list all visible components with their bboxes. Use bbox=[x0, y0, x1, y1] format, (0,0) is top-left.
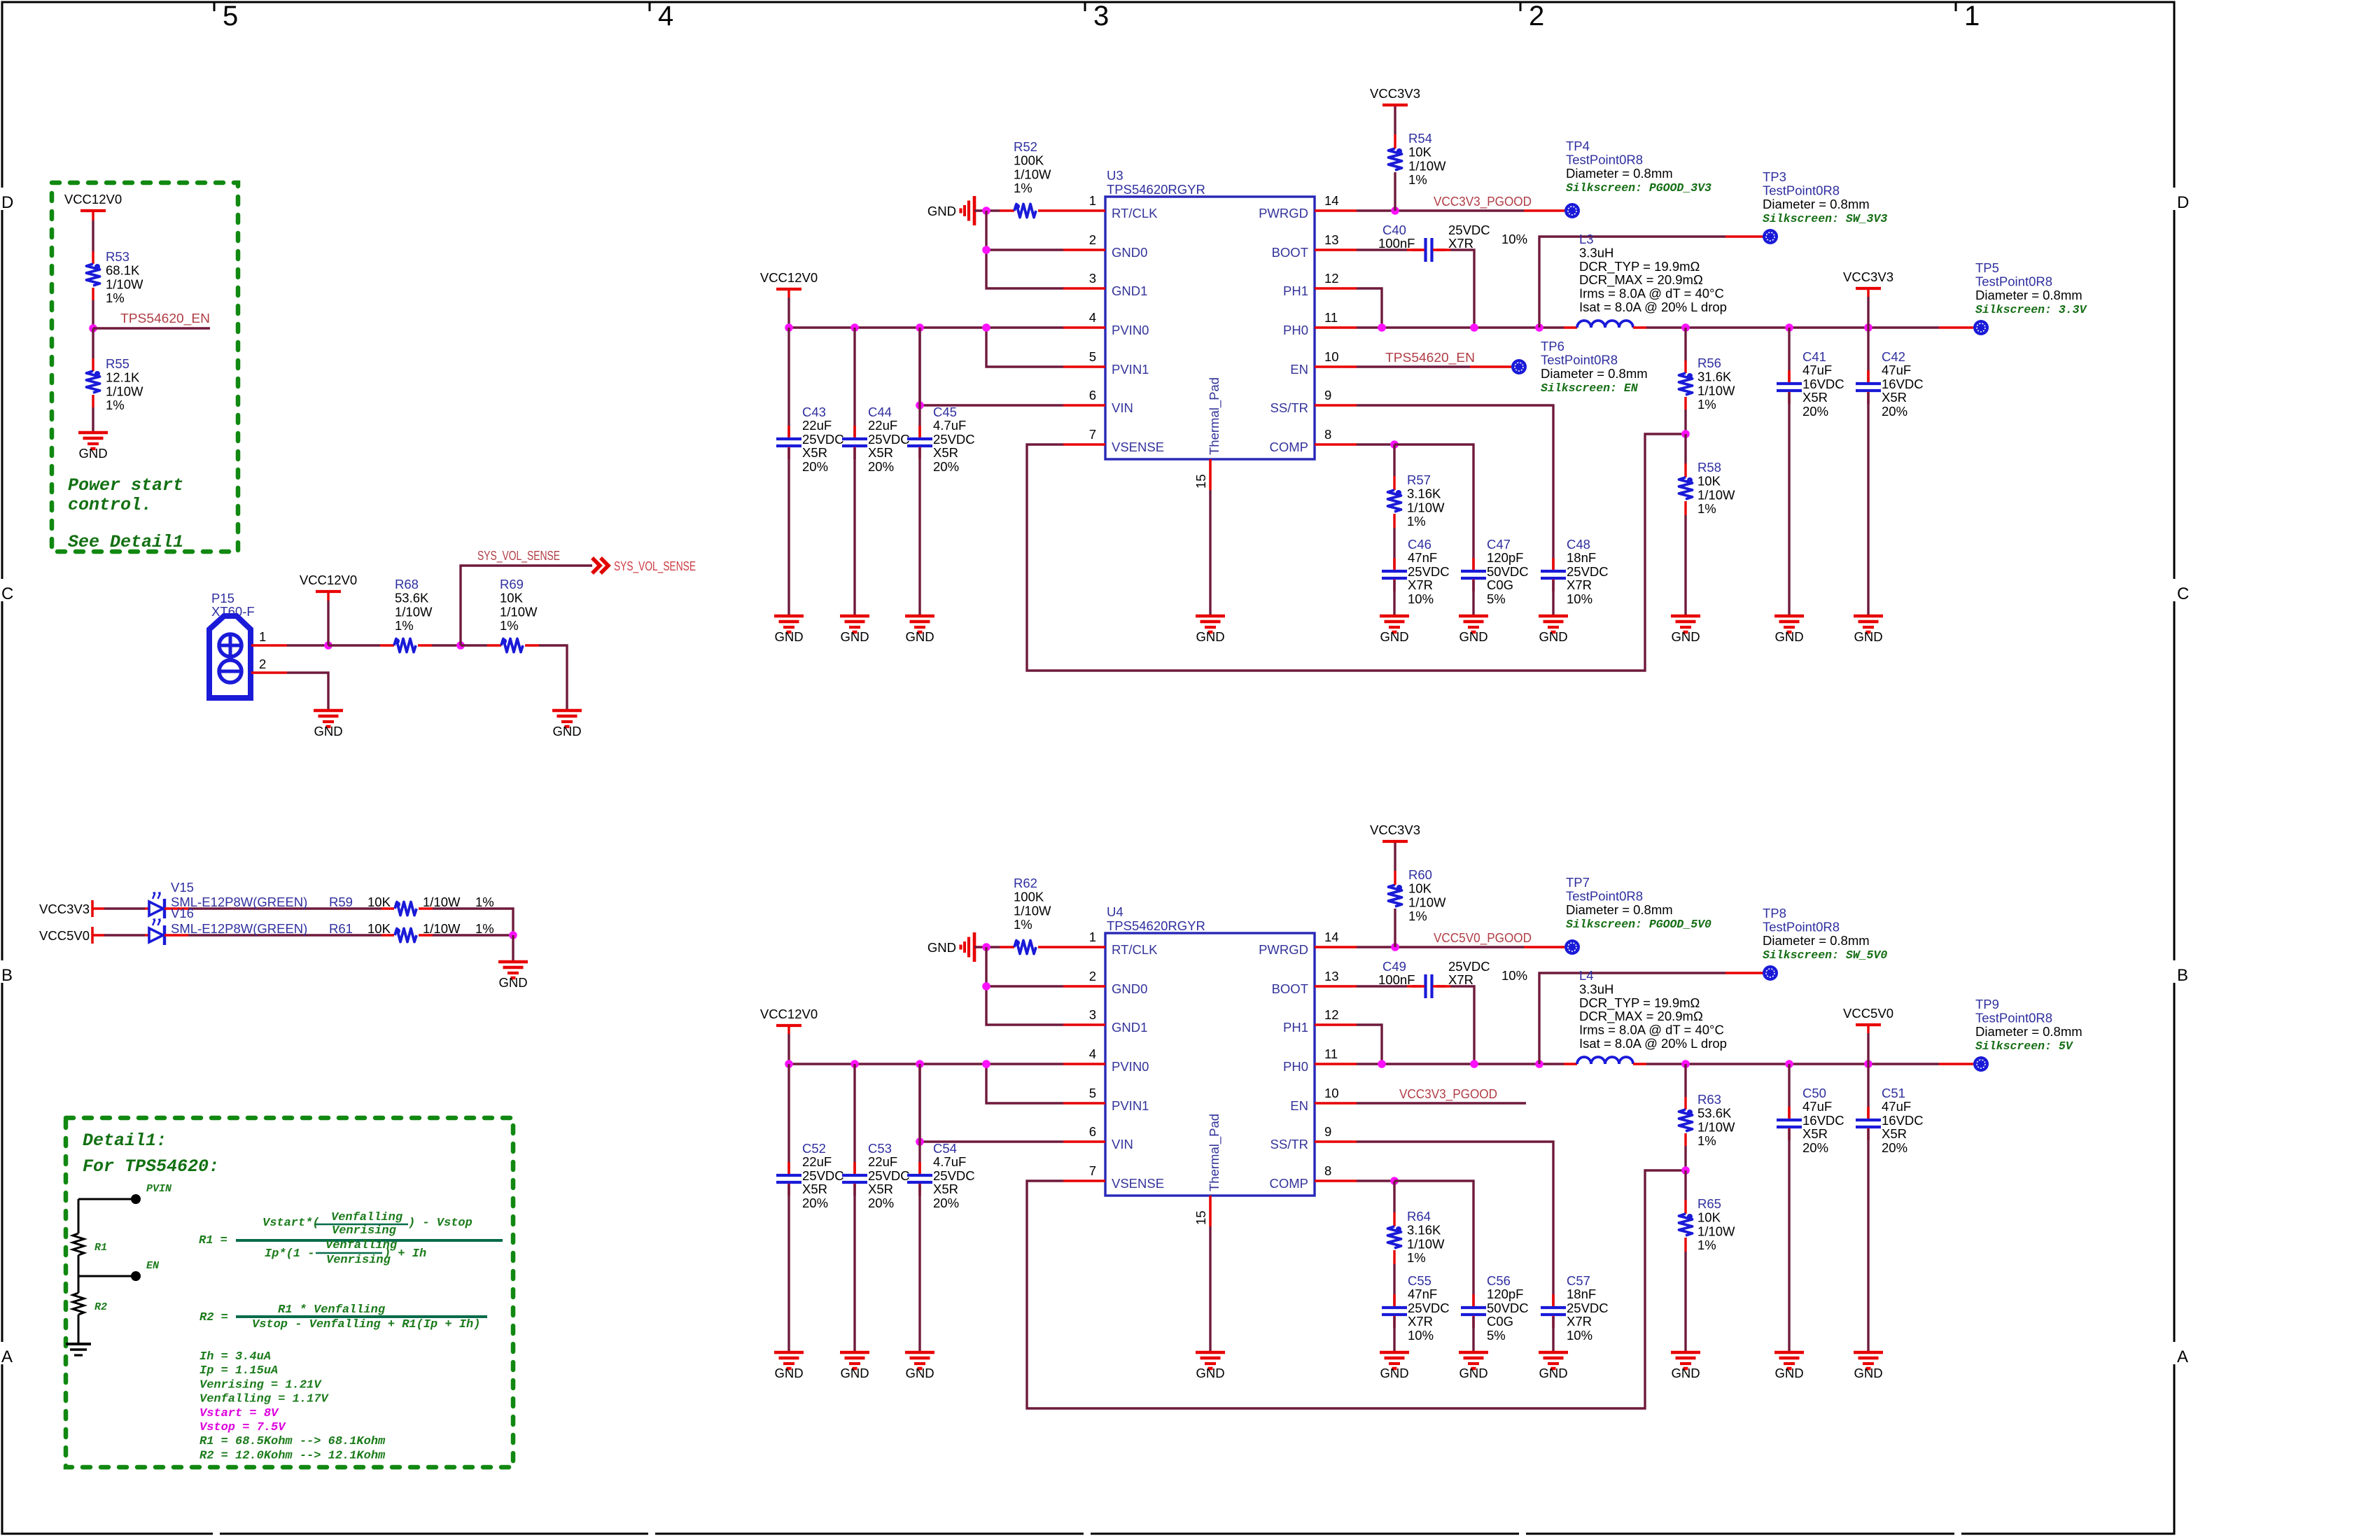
svg-text:TPS54620_EN: TPS54620_EN bbox=[120, 311, 210, 326]
svg-text:1/10W: 1/10W bbox=[1408, 895, 1446, 909]
svg-text:C43: C43 bbox=[802, 405, 826, 419]
svg-text:GND: GND bbox=[314, 724, 342, 738]
svg-text:GND: GND bbox=[1539, 1366, 1567, 1380]
svg-text:100nF: 100nF bbox=[1378, 236, 1415, 251]
svg-text:Diameter = 0.8mm: Diameter = 0.8mm bbox=[1541, 366, 1648, 381]
svg-text:Thermal_Pad: Thermal_Pad bbox=[1207, 377, 1222, 455]
svg-text:TestPoint0R8: TestPoint0R8 bbox=[1975, 274, 2052, 288]
svg-text:20%: 20% bbox=[802, 1196, 828, 1210]
svg-text:R69: R69 bbox=[500, 577, 524, 591]
svg-text:C: C bbox=[1, 584, 13, 603]
svg-text:PVIN: PVIN bbox=[146, 1183, 172, 1195]
svg-text:R63: R63 bbox=[1697, 1092, 1721, 1107]
svg-text:Ip*(1 -: Ip*(1 - bbox=[265, 1247, 314, 1261]
svg-text:16VDC: 16VDC bbox=[1882, 1113, 1924, 1128]
svg-text:1%: 1% bbox=[1697, 397, 1716, 412]
svg-text:12: 12 bbox=[1324, 271, 1339, 286]
svg-text:VCC3V3_PGOOD: VCC3V3_PGOOD bbox=[1399, 1086, 1497, 1102]
svg-text:5: 5 bbox=[223, 1, 238, 31]
svg-text:GND0: GND0 bbox=[1112, 245, 1147, 260]
svg-text:C42: C42 bbox=[1882, 349, 1905, 364]
svg-text:Silkscreen: SW_3V3: Silkscreen: SW_3V3 bbox=[1763, 212, 1887, 225]
svg-text:2: 2 bbox=[259, 657, 266, 671]
svg-text:Detail1:: Detail1: bbox=[83, 1130, 167, 1151]
svg-text:Power start: Power start bbox=[68, 475, 183, 496]
svg-text:VCC5V0: VCC5V0 bbox=[39, 928, 90, 943]
svg-text:P15: P15 bbox=[211, 591, 234, 605]
svg-text:1/10W: 1/10W bbox=[1014, 167, 1051, 181]
svg-text:1/10W: 1/10W bbox=[1014, 903, 1051, 918]
svg-text:Diameter = 0.8mm: Diameter = 0.8mm bbox=[1566, 166, 1673, 181]
svg-text:16VDC: 16VDC bbox=[1802, 1113, 1844, 1128]
svg-text:1/10W: 1/10W bbox=[1697, 487, 1735, 502]
svg-text:20%: 20% bbox=[933, 459, 959, 474]
svg-text:4.7uF: 4.7uF bbox=[933, 1154, 966, 1169]
svg-text:C44: C44 bbox=[868, 405, 892, 419]
svg-text:A: A bbox=[2177, 1347, 2188, 1366]
svg-text:47uF: 47uF bbox=[1802, 363, 1832, 377]
svg-text:SYS_VOL_SENSE: SYS_VOL_SENSE bbox=[614, 559, 696, 574]
svg-text:5%: 5% bbox=[1487, 591, 1506, 606]
svg-text:TP3: TP3 bbox=[1763, 169, 1786, 184]
svg-text:R53: R53 bbox=[106, 249, 129, 264]
svg-text:GND: GND bbox=[840, 1366, 869, 1380]
svg-text:120pF: 120pF bbox=[1487, 550, 1523, 565]
svg-text:See Detail1: See Detail1 bbox=[68, 532, 183, 552]
svg-text:X5R: X5R bbox=[933, 445, 958, 460]
svg-text:GND: GND bbox=[1459, 1366, 1487, 1380]
svg-text:Vstop = 7.5V: Vstop = 7.5V bbox=[199, 1421, 286, 1434]
svg-text:GND: GND bbox=[1380, 629, 1408, 644]
svg-text:1/10W: 1/10W bbox=[106, 276, 143, 291]
svg-text:R65: R65 bbox=[1697, 1196, 1721, 1211]
svg-text:1/10W: 1/10W bbox=[1407, 500, 1445, 514]
svg-text:14: 14 bbox=[1324, 930, 1339, 944]
svg-text:C48: C48 bbox=[1567, 537, 1590, 552]
svg-text:C47: C47 bbox=[1487, 537, 1511, 552]
svg-text:47uF: 47uF bbox=[1882, 363, 1911, 377]
svg-text:25VDC: 25VDC bbox=[933, 432, 975, 447]
svg-text:GND: GND bbox=[498, 975, 527, 990]
svg-text:R1 = 68.5Kohm --> 68.1Kohm: R1 = 68.5Kohm --> 68.1Kohm bbox=[199, 1435, 386, 1448]
svg-text:3.16K: 3.16K bbox=[1407, 486, 1441, 501]
svg-text:X7R: X7R bbox=[1408, 1314, 1433, 1329]
svg-text:Irms = 8.0A @ dT = 40°C: Irms = 8.0A @ dT = 40°C bbox=[1579, 286, 1724, 301]
svg-text:5%: 5% bbox=[1487, 1328, 1506, 1343]
svg-text:R1 * Venfalling: R1 * Venfalling bbox=[278, 1303, 386, 1317]
svg-text:C0G: C0G bbox=[1487, 1314, 1513, 1329]
svg-text:PH1: PH1 bbox=[1283, 283, 1308, 298]
svg-text:COMP: COMP bbox=[1270, 440, 1309, 454]
svg-text:X5R: X5R bbox=[802, 1182, 827, 1196]
svg-text:L3: L3 bbox=[1579, 232, 1594, 246]
svg-text:Venrising = 1.21V: Venrising = 1.21V bbox=[199, 1378, 322, 1392]
svg-text:PH0: PH0 bbox=[1283, 323, 1308, 337]
svg-text:X7R: X7R bbox=[1567, 1314, 1592, 1329]
svg-text:U4: U4 bbox=[1107, 904, 1123, 919]
svg-text:31.6K: 31.6K bbox=[1697, 370, 1732, 384]
svg-text:22uF: 22uF bbox=[802, 1154, 832, 1169]
svg-text:VCC3V3: VCC3V3 bbox=[1370, 86, 1420, 101]
svg-text:25VDC: 25VDC bbox=[802, 1168, 844, 1183]
svg-text:11: 11 bbox=[1324, 310, 1338, 325]
svg-text:Silkscreen: PGOOD_3V3: Silkscreen: PGOOD_3V3 bbox=[1566, 181, 1711, 195]
svg-text:C53: C53 bbox=[868, 1141, 892, 1156]
svg-text:SYS_VOL_SENSE: SYS_VOL_SENSE bbox=[477, 548, 560, 563]
svg-text:Diameter = 0.8mm: Diameter = 0.8mm bbox=[1975, 1024, 2082, 1039]
svg-text:6: 6 bbox=[1089, 388, 1096, 402]
svg-text:Silkscreen: 5V: Silkscreen: 5V bbox=[1975, 1039, 2074, 1053]
svg-text:5: 5 bbox=[1089, 349, 1096, 364]
svg-text:VCC3V3: VCC3V3 bbox=[1370, 822, 1420, 837]
svg-text:20%: 20% bbox=[868, 1196, 894, 1210]
svg-text:3: 3 bbox=[1093, 1, 1109, 31]
svg-text:GND: GND bbox=[1196, 629, 1224, 644]
svg-text:GND: GND bbox=[1459, 629, 1487, 644]
svg-text:3.3uH: 3.3uH bbox=[1579, 245, 1613, 260]
svg-text:GND: GND bbox=[905, 1366, 934, 1380]
svg-text:7: 7 bbox=[1089, 427, 1096, 442]
svg-text:5: 5 bbox=[1089, 1086, 1096, 1100]
svg-text:VCC3V3: VCC3V3 bbox=[39, 902, 90, 916]
svg-text:X5R: X5R bbox=[933, 1182, 958, 1196]
svg-text:VSENSE: VSENSE bbox=[1112, 440, 1164, 454]
svg-text:C45: C45 bbox=[933, 405, 957, 419]
svg-text:R57: R57 bbox=[1407, 472, 1431, 487]
svg-text:TestPoint0R8: TestPoint0R8 bbox=[1763, 919, 1840, 934]
svg-text:20%: 20% bbox=[802, 459, 828, 474]
svg-text:PVIN1: PVIN1 bbox=[1112, 362, 1149, 377]
svg-text:R59: R59 bbox=[329, 895, 353, 909]
svg-text:1%: 1% bbox=[475, 895, 494, 909]
svg-text:1/10W: 1/10W bbox=[1697, 1224, 1735, 1238]
svg-text:SS/TR: SS/TR bbox=[1270, 400, 1308, 415]
svg-text:RT/CLK: RT/CLK bbox=[1112, 206, 1158, 220]
svg-text:Diameter = 0.8mm: Diameter = 0.8mm bbox=[1763, 933, 1870, 948]
svg-text:GND0: GND0 bbox=[1112, 981, 1147, 996]
svg-text:4: 4 bbox=[658, 1, 673, 31]
svg-text:10K: 10K bbox=[1408, 881, 1432, 896]
svg-text:10K: 10K bbox=[500, 591, 524, 605]
svg-text:53.6K: 53.6K bbox=[395, 591, 429, 605]
svg-text:20%: 20% bbox=[1882, 1140, 1907, 1155]
svg-text:Ih = 3.4uA: Ih = 3.4uA bbox=[199, 1350, 271, 1364]
svg-text:TP8: TP8 bbox=[1763, 906, 1786, 920]
svg-text:1/10W: 1/10W bbox=[500, 604, 538, 619]
svg-text:VIN: VIN bbox=[1112, 1137, 1133, 1151]
svg-text:) + Ih: ) + Ih bbox=[384, 1247, 426, 1261]
svg-text:X5R: X5R bbox=[802, 445, 827, 460]
svg-text:12.1K: 12.1K bbox=[106, 370, 140, 385]
svg-text:18nF: 18nF bbox=[1567, 550, 1596, 565]
svg-text:1%: 1% bbox=[1697, 1133, 1716, 1148]
svg-text:TestPoint0R8: TestPoint0R8 bbox=[1541, 352, 1618, 367]
svg-text:C51: C51 bbox=[1882, 1086, 1905, 1100]
svg-text:R68: R68 bbox=[395, 577, 419, 591]
svg-text:7: 7 bbox=[1089, 1163, 1096, 1178]
svg-text:1/10W: 1/10W bbox=[395, 604, 433, 619]
svg-text:1/10W: 1/10W bbox=[1407, 1236, 1445, 1251]
svg-text:X5R: X5R bbox=[1802, 390, 1828, 405]
svg-text:1%: 1% bbox=[1407, 1250, 1426, 1265]
svg-text:D: D bbox=[1, 193, 13, 212]
svg-text:SML-E12P8W(GREEN): SML-E12P8W(GREEN) bbox=[171, 921, 307, 936]
svg-text:10%: 10% bbox=[1567, 591, 1592, 606]
svg-text:C46: C46 bbox=[1408, 537, 1431, 552]
svg-text:20%: 20% bbox=[868, 459, 894, 474]
svg-text:25VDC: 25VDC bbox=[802, 432, 844, 447]
svg-text:GND: GND bbox=[840, 629, 869, 644]
svg-text:20%: 20% bbox=[1802, 404, 1828, 419]
svg-text:GND: GND bbox=[1671, 629, 1700, 644]
svg-text:C0G: C0G bbox=[1487, 577, 1513, 592]
svg-text:1%: 1% bbox=[106, 398, 125, 412]
svg-text:) - Vstop: ) - Vstop bbox=[408, 1217, 472, 1230]
svg-text:Vstart = 8V: Vstart = 8V bbox=[199, 1407, 279, 1420]
svg-text:10: 10 bbox=[1324, 349, 1339, 364]
svg-text:10%: 10% bbox=[1408, 591, 1434, 606]
svg-text:TestPoint0R8: TestPoint0R8 bbox=[1566, 888, 1643, 903]
svg-text:22uF: 22uF bbox=[868, 418, 897, 433]
svg-text:COMP: COMP bbox=[1270, 1176, 1309, 1191]
svg-text:GND: GND bbox=[78, 446, 107, 461]
svg-text:25VDC: 25VDC bbox=[868, 1168, 910, 1183]
svg-text:X7R: X7R bbox=[1448, 972, 1473, 987]
svg-text:1%: 1% bbox=[1014, 181, 1032, 195]
svg-text:BOOT: BOOT bbox=[1272, 245, 1308, 260]
svg-text:GND: GND bbox=[552, 724, 581, 738]
svg-text:12: 12 bbox=[1324, 1007, 1339, 1022]
svg-text:VCC12V0: VCC12V0 bbox=[300, 573, 357, 587]
svg-text:10K: 10K bbox=[1408, 145, 1432, 160]
svg-text:X5R: X5R bbox=[868, 1182, 893, 1196]
svg-text:SS/TR: SS/TR bbox=[1270, 1137, 1308, 1151]
svg-text:R2: R2 bbox=[94, 1301, 107, 1313]
svg-text:13: 13 bbox=[1324, 969, 1339, 983]
svg-text:47uF: 47uF bbox=[1802, 1099, 1832, 1114]
svg-text:Silkscreen: EN: Silkscreen: EN bbox=[1541, 381, 1639, 395]
svg-text:Thermal_Pad: Thermal_Pad bbox=[1207, 1114, 1222, 1191]
svg-text:100K: 100K bbox=[1014, 153, 1044, 168]
svg-text:R2 =: R2 = bbox=[199, 1311, 228, 1324]
svg-text:R52: R52 bbox=[1014, 139, 1037, 154]
svg-text:10%: 10% bbox=[1408, 1328, 1434, 1343]
svg-text:VCC12V0: VCC12V0 bbox=[760, 270, 818, 285]
svg-text:Irms = 8.0A @ dT = 40°C: Irms = 8.0A @ dT = 40°C bbox=[1579, 1023, 1724, 1037]
svg-text:47nF: 47nF bbox=[1408, 1287, 1437, 1301]
svg-text:4.7uF: 4.7uF bbox=[933, 418, 966, 433]
svg-text:4: 4 bbox=[1089, 310, 1096, 325]
svg-text:GND: GND bbox=[1854, 629, 1882, 644]
svg-text:GND: GND bbox=[1774, 1366, 1803, 1380]
svg-text:GND: GND bbox=[1854, 1366, 1882, 1380]
svg-text:1%: 1% bbox=[1697, 1238, 1716, 1252]
svg-text:Ip = 1.15uA: Ip = 1.15uA bbox=[199, 1364, 278, 1378]
svg-text:25VDC: 25VDC bbox=[1448, 223, 1490, 237]
svg-text:control.: control. bbox=[68, 495, 152, 515]
svg-text:GND: GND bbox=[1774, 629, 1803, 644]
svg-text:X5R: X5R bbox=[1882, 1126, 1907, 1141]
svg-text:16VDC: 16VDC bbox=[1802, 377, 1844, 391]
svg-text:R55: R55 bbox=[106, 356, 129, 371]
svg-text:10K: 10K bbox=[1697, 474, 1721, 489]
svg-text:25VDC: 25VDC bbox=[1567, 564, 1609, 579]
svg-text:47uF: 47uF bbox=[1882, 1099, 1911, 1114]
svg-text:100nF: 100nF bbox=[1378, 972, 1415, 987]
svg-text:C41: C41 bbox=[1802, 349, 1826, 364]
svg-text:RT/CLK: RT/CLK bbox=[1112, 942, 1158, 957]
svg-text:GND: GND bbox=[1380, 1366, 1408, 1380]
svg-text:V15: V15 bbox=[171, 880, 194, 895]
svg-text:100K: 100K bbox=[1014, 890, 1044, 904]
svg-text:C55: C55 bbox=[1408, 1273, 1431, 1288]
svg-text:VCC3V3: VCC3V3 bbox=[1843, 269, 1893, 284]
svg-text:A: A bbox=[1, 1347, 13, 1366]
svg-text:Diameter = 0.8mm: Diameter = 0.8mm bbox=[1566, 902, 1673, 917]
svg-text:For TPS54620:: For TPS54620: bbox=[83, 1156, 219, 1177]
svg-text:3.16K: 3.16K bbox=[1407, 1223, 1441, 1238]
svg-text:V16: V16 bbox=[171, 906, 194, 920]
svg-text:1: 1 bbox=[1089, 193, 1096, 208]
svg-text:X7R: X7R bbox=[1448, 236, 1473, 251]
svg-text:3: 3 bbox=[1089, 1007, 1096, 1022]
svg-text:X5R: X5R bbox=[868, 445, 893, 460]
svg-text:53.6K: 53.6K bbox=[1697, 1106, 1732, 1121]
svg-text:1/10W: 1/10W bbox=[1697, 1119, 1735, 1134]
svg-text:Venrising: Venrising bbox=[326, 1254, 391, 1267]
svg-text:Silkscreen: SW_5V0: Silkscreen: SW_5V0 bbox=[1763, 948, 1887, 962]
svg-text:25VDC: 25VDC bbox=[868, 432, 910, 447]
svg-text:1%: 1% bbox=[1408, 909, 1427, 923]
svg-text:EN: EN bbox=[1290, 1098, 1308, 1113]
svg-text:VCC12V0: VCC12V0 bbox=[760, 1007, 818, 1021]
svg-text:GND: GND bbox=[774, 629, 803, 644]
svg-text:L4: L4 bbox=[1579, 968, 1594, 983]
svg-text:50VDC: 50VDC bbox=[1487, 1301, 1529, 1315]
svg-text:TestPoint0R8: TestPoint0R8 bbox=[1763, 183, 1840, 197]
svg-text:1%: 1% bbox=[1408, 172, 1427, 187]
svg-text:Silkscreen: 3.3V: Silkscreen: 3.3V bbox=[1975, 303, 2088, 316]
svg-text:TP4: TP4 bbox=[1566, 139, 1590, 153]
svg-text:R62: R62 bbox=[1014, 876, 1037, 890]
svg-text:VCC3V3_PGOOD: VCC3V3_PGOOD bbox=[1434, 194, 1532, 209]
svg-text:47nF: 47nF bbox=[1408, 550, 1437, 565]
svg-text:C57: C57 bbox=[1567, 1273, 1590, 1288]
svg-text:10: 10 bbox=[1324, 1086, 1339, 1100]
svg-text:EN: EN bbox=[146, 1260, 160, 1272]
svg-text:2: 2 bbox=[1089, 969, 1096, 983]
svg-text:VCC5V0_PGOOD: VCC5V0_PGOOD bbox=[1434, 930, 1532, 946]
svg-text:PWRGD: PWRGD bbox=[1259, 942, 1308, 957]
svg-text:R54: R54 bbox=[1408, 131, 1432, 146]
svg-text:10K: 10K bbox=[367, 921, 391, 936]
svg-text:Vstart*(: Vstart*( bbox=[262, 1217, 320, 1230]
svg-text:20%: 20% bbox=[1802, 1140, 1828, 1155]
svg-text:1/10W: 1/10W bbox=[1408, 158, 1446, 173]
svg-text:Venrising: Venrising bbox=[332, 1224, 397, 1238]
svg-text:R58: R58 bbox=[1697, 460, 1721, 475]
svg-text:VCC5V0: VCC5V0 bbox=[1843, 1006, 1893, 1021]
svg-text:X5R: X5R bbox=[1802, 1126, 1828, 1141]
svg-text:1%: 1% bbox=[106, 290, 125, 305]
svg-text:PVIN1: PVIN1 bbox=[1112, 1098, 1149, 1113]
svg-text:1%: 1% bbox=[500, 618, 519, 633]
svg-text:PVIN0: PVIN0 bbox=[1112, 323, 1149, 337]
svg-text:R61: R61 bbox=[329, 921, 353, 936]
svg-text:22uF: 22uF bbox=[868, 1154, 897, 1169]
svg-text:25VDC: 25VDC bbox=[1448, 959, 1490, 974]
svg-text:TP7: TP7 bbox=[1566, 875, 1590, 890]
svg-text:20%: 20% bbox=[933, 1196, 959, 1210]
svg-text:C: C bbox=[2177, 584, 2189, 603]
svg-text:2: 2 bbox=[1089, 232, 1096, 247]
svg-text:15: 15 bbox=[1193, 474, 1208, 489]
svg-text:Venfalling: Venfalling bbox=[331, 1211, 403, 1224]
svg-text:TestPoint0R8: TestPoint0R8 bbox=[1566, 152, 1643, 167]
svg-text:50VDC: 50VDC bbox=[1487, 564, 1529, 579]
svg-text:25VDC: 25VDC bbox=[1408, 1301, 1450, 1315]
svg-text:EN: EN bbox=[1290, 362, 1308, 377]
svg-text:10%: 10% bbox=[1501, 232, 1527, 246]
svg-text:Isat = 8.0A @ 20% L drop: Isat = 8.0A @ 20% L drop bbox=[1579, 300, 1727, 314]
svg-text:16VDC: 16VDC bbox=[1882, 377, 1924, 391]
svg-text:10%: 10% bbox=[1501, 968, 1527, 983]
svg-text:25VDC: 25VDC bbox=[1567, 1301, 1609, 1315]
svg-text:X7R: X7R bbox=[1567, 577, 1592, 592]
svg-text:GND1: GND1 bbox=[1112, 283, 1147, 298]
svg-text:1/10W: 1/10W bbox=[423, 921, 461, 936]
svg-text:C56: C56 bbox=[1487, 1273, 1511, 1288]
svg-text:BOOT: BOOT bbox=[1272, 981, 1308, 996]
svg-text:22uF: 22uF bbox=[802, 418, 832, 433]
svg-text:R1: R1 bbox=[94, 1242, 107, 1254]
svg-text:8: 8 bbox=[1324, 427, 1331, 442]
svg-text:1%: 1% bbox=[1014, 917, 1032, 932]
svg-text:120pF: 120pF bbox=[1487, 1287, 1523, 1301]
svg-text:B: B bbox=[1, 966, 13, 985]
svg-text:4: 4 bbox=[1089, 1046, 1096, 1061]
svg-text:3.3uH: 3.3uH bbox=[1579, 981, 1613, 996]
svg-text:1%: 1% bbox=[1407, 514, 1426, 528]
svg-text:3: 3 bbox=[1089, 271, 1096, 286]
svg-text:TP9: TP9 bbox=[1975, 997, 1999, 1011]
svg-text:TP6: TP6 bbox=[1541, 339, 1564, 353]
svg-text:PH0: PH0 bbox=[1283, 1059, 1308, 1074]
svg-text:1/10W: 1/10W bbox=[423, 895, 461, 909]
svg-text:13: 13 bbox=[1324, 232, 1339, 247]
svg-text:Venfalling = 1.17V: Venfalling = 1.17V bbox=[199, 1393, 329, 1406]
svg-text:C50: C50 bbox=[1802, 1086, 1826, 1100]
svg-text:PWRGD: PWRGD bbox=[1259, 206, 1308, 220]
svg-text:GND: GND bbox=[927, 204, 956, 218]
svg-text:10K: 10K bbox=[1697, 1210, 1721, 1225]
svg-text:GND: GND bbox=[1196, 1366, 1224, 1380]
svg-text:1/10W: 1/10W bbox=[106, 384, 143, 398]
svg-text:Silkscreen: PGOOD_5V0: Silkscreen: PGOOD_5V0 bbox=[1566, 918, 1711, 931]
svg-text:B: B bbox=[2177, 966, 2188, 985]
svg-text:GND: GND bbox=[1671, 1366, 1700, 1380]
svg-text:U3: U3 bbox=[1107, 168, 1123, 183]
svg-text:TestPoint0R8: TestPoint0R8 bbox=[1975, 1010, 2052, 1025]
svg-text:C52: C52 bbox=[802, 1141, 826, 1156]
svg-text:R2 = 12.0Kohm --> 12.1Kohm: R2 = 12.0Kohm --> 12.1Kohm bbox=[199, 1449, 386, 1462]
svg-text:9: 9 bbox=[1324, 1124, 1331, 1139]
svg-text:D: D bbox=[2177, 193, 2189, 212]
svg-text:GND: GND bbox=[774, 1366, 803, 1380]
svg-text:Vstop - Venfalling + R1(Ip + I: Vstop - Venfalling + R1(Ip + Ih) bbox=[252, 1318, 480, 1331]
svg-text:25VDC: 25VDC bbox=[1408, 564, 1450, 579]
svg-text:1%: 1% bbox=[475, 921, 494, 936]
